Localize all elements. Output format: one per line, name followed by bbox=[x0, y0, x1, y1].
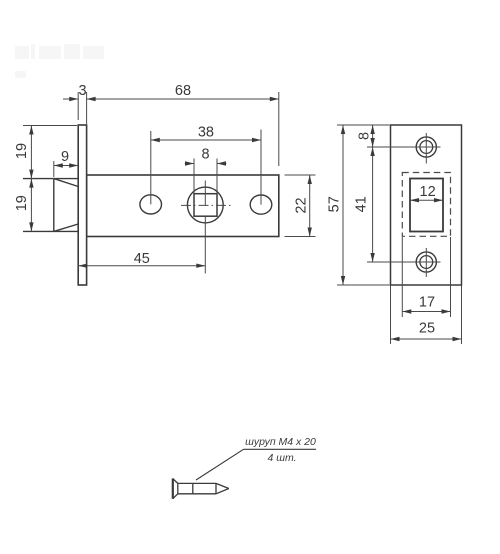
label rule bbox=[244, 448, 317, 450]
svg-text:12: 12 bbox=[420, 184, 436, 200]
svg-text:19: 19 bbox=[14, 143, 30, 159]
svg-text:19: 19 bbox=[14, 195, 30, 211]
screw hole bottom bbox=[416, 252, 436, 272]
hole oval left bbox=[140, 195, 162, 214]
spindle axis line down to 45 dim bbox=[204, 216, 206, 273]
svg-text:4 шт.: 4 шт. bbox=[267, 452, 296, 464]
svg-text:8: 8 bbox=[201, 147, 209, 163]
spindle center line vertical top bbox=[204, 181, 206, 206]
screw hole top bbox=[416, 137, 436, 157]
svg-text:38: 38 bbox=[198, 125, 214, 141]
strike plate outline bbox=[391, 125, 462, 285]
faceplate bbox=[78, 125, 86, 285]
dimension 22 bbox=[285, 175, 316, 237]
dimension 57 bbox=[337, 125, 390, 285]
latch opening rect bbox=[410, 179, 443, 232]
dimension 3 bbox=[63, 92, 78, 120]
dimension 45 bbox=[78, 265, 205, 267]
latch opening dashed contour bbox=[402, 173, 450, 237]
dimension 25 bbox=[391, 286, 462, 345]
svg-text:шуруп M4 x 20: шуруп M4 x 20 bbox=[245, 436, 316, 448]
dimension 17 bbox=[402, 237, 450, 317]
dimension 8 plate bbox=[372, 125, 374, 147]
spindle square hole bbox=[194, 194, 217, 217]
spindle circle bbox=[187, 187, 223, 223]
screw shank bbox=[178, 482, 216, 484]
latch case body bbox=[87, 175, 279, 237]
screw head cone bbox=[173, 479, 178, 484]
screw tip bbox=[215, 483, 217, 493]
dimension 68 bbox=[87, 92, 279, 166]
dimension 19 lower bbox=[29, 179, 33, 188]
hole oval right bbox=[250, 195, 272, 214]
dimension 41 bbox=[372, 147, 374, 262]
latch bolt bbox=[23, 179, 78, 232]
svg-text:9: 9 bbox=[61, 149, 69, 165]
svg-text:22: 22 bbox=[293, 197, 309, 213]
svg-text:8: 8 bbox=[356, 132, 372, 140]
svg-text:3: 3 bbox=[78, 83, 86, 99]
dimension 8 spindle bbox=[185, 159, 227, 194]
dimension 9 bbox=[54, 161, 78, 177]
screw head face bbox=[172, 478, 174, 498]
svg-text:45: 45 bbox=[134, 251, 150, 267]
svg-text:41: 41 bbox=[353, 196, 369, 212]
svg-text:68: 68 bbox=[175, 83, 191, 99]
svg-text:17: 17 bbox=[419, 295, 435, 311]
leader line bbox=[196, 449, 244, 480]
dimension 19 upper bbox=[23, 126, 77, 232]
dimension 38 bbox=[151, 130, 261, 205]
spindle center line horizontal bbox=[181, 204, 234, 206]
watermark bbox=[15, 44, 104, 78]
svg-text:25: 25 bbox=[419, 321, 435, 337]
svg-text:57: 57 bbox=[327, 196, 343, 212]
dimension 12 bbox=[410, 199, 443, 201]
